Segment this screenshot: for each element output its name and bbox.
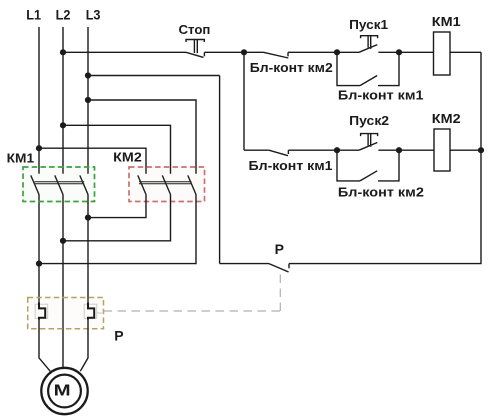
wire coil KM1 to right rail: [450, 51, 481, 53]
svg-text:Стоп: Стоп: [179, 23, 211, 37]
svg-text:Бл-конт км1: Бл-конт км1: [249, 159, 333, 173]
stop button NC blade: [186, 52, 204, 57]
NC contact Бл-конт км2 blade: [264, 52, 289, 58]
wire aux branch 2 right: [378, 150, 399, 181]
wire L3 rail top: [87, 27, 89, 174]
junction dot KM2 phase1 to L3 rail: [85, 215, 91, 221]
svg-text:Бл-конт км2: Бл-конт км2: [250, 61, 333, 75]
motor M inner circle: [48, 375, 81, 408]
wire node C to coil KM1: [399, 51, 434, 53]
thermal contact P tick: [288, 264, 290, 269]
stop button tick: [203, 52, 205, 56]
contactor KM1 linkage bar: [35, 182, 85, 184]
junction dot right rail row2: [478, 147, 484, 153]
svg-text:L3: L3: [86, 7, 101, 23]
wire node D to start button 2: [337, 149, 359, 151]
svg-text:КМ2: КМ2: [113, 151, 142, 165]
thermal relay heater frame phase3: [84, 304, 97, 318]
wire NC km1 to node D: [288, 149, 337, 151]
contactor KM2 linkage bar: [139, 182, 192, 184]
wire stop button to node A: [204, 51, 244, 53]
svg-text:КМ2: КМ2: [432, 112, 461, 126]
wire node E to coil KM2: [399, 149, 434, 151]
junction dot L1 tap: [36, 145, 42, 151]
wire NC km2 to node B: [288, 51, 337, 53]
svg-text:Пуск1: Пуск1: [349, 18, 388, 32]
start button Пуск2 plunger: [361, 134, 378, 147]
wire L2 rail top: [62, 27, 64, 174]
wire control return vertical: [219, 76, 221, 264]
wire KM2 phase2 output: [63, 195, 171, 241]
svg-text:Бл-конт км2: Бл-конт км2: [338, 186, 424, 200]
thermal relay heater P phase1: [39, 303, 45, 320]
wire aux branch 1 right: [378, 52, 399, 85]
svg-text:КМ1: КМ1: [7, 152, 34, 166]
contactor KM1 boundary box: [23, 167, 95, 202]
junction dot L3 tap: [85, 72, 91, 78]
wire row2 to NC km1: [244, 149, 269, 151]
junction dot node A: [241, 49, 247, 55]
thermal relay boundary box: [28, 298, 104, 329]
svg-text:Бл-конт км1: Бл-конт км1: [338, 89, 424, 103]
svg-text:Пуск2: Пуск2: [349, 114, 389, 128]
contactor KM2 contact blade phase2: [162, 175, 170, 194]
junction dot KM2 phase2 to L2 rail: [60, 238, 66, 244]
coil KM2: [434, 129, 450, 171]
junction dot node C: [396, 49, 402, 55]
junction dot KM2 phase3 to L1 rail: [36, 261, 42, 267]
svg-text:L2: L2: [56, 7, 71, 23]
wire L3 tap to KM2 phase3: [88, 100, 196, 174]
motor M outer circle: [41, 368, 87, 414]
NC contact Бл-конт км2 tick: [287, 52, 289, 56]
wire start button 1 to node C: [378, 51, 399, 53]
wire KM2 phase3 output: [39, 195, 196, 264]
NC contact Бл-конт км1 blade row2: [269, 150, 288, 156]
wire L1 rail top: [38, 27, 40, 174]
wire node A to NC km2: [244, 51, 264, 53]
wire L3 rail below heater: [80, 318, 88, 372]
contactor KM2 boundary box: [129, 167, 205, 202]
svg-text:М: М: [54, 383, 71, 400]
thermal relay heater P phase3: [88, 303, 94, 320]
wire L1 rail below heater: [39, 318, 50, 372]
junction dot L2 tap: [60, 49, 66, 55]
stop button plunger: [186, 40, 204, 54]
contactor KM2 contact blade phase3: [188, 175, 196, 194]
wire L2 rail to motor: [62, 195, 64, 369]
svg-text:КМ1: КМ1: [432, 15, 461, 29]
svg-text:L1: L1: [26, 7, 41, 23]
coil KM1: [434, 32, 451, 75]
wire L2 tap to KM2 phase2: [63, 125, 171, 173]
wire coil KM2 to right rail: [450, 149, 481, 151]
NO contact Бл-конт км1 blade: [360, 76, 377, 86]
wire aux branch 1 left: [337, 52, 360, 85]
thermal relay heater frame phase1: [35, 304, 48, 318]
svg-text:Р: Р: [275, 241, 284, 257]
wire start button 2 to node E: [378, 149, 399, 151]
wire node B to start button 1: [337, 51, 359, 53]
junction dot node D: [334, 147, 340, 153]
contactor KM2 contact blade phase1: [138, 175, 146, 194]
contactor KM1 contact blade phase1: [31, 175, 39, 194]
NO contact Бл-конт км2 blade: [360, 171, 377, 181]
contactor KM1 contact blade phase3: [80, 175, 88, 194]
wire right rail: [289, 52, 481, 263]
wire node A down to row 2: [243, 52, 245, 150]
wire control return to thermal contact: [220, 263, 269, 265]
wire L3 rail middle: [87, 195, 89, 307]
start button Пуск1 plunger: [361, 36, 378, 49]
wire aux branch 2 left: [337, 150, 360, 181]
mechanical linkage thermal relay to contact: [97, 312, 104, 314]
wire L1 rail middle: [38, 195, 40, 307]
junction dot node E: [396, 147, 402, 153]
wire KM2 phase1 output: [88, 195, 146, 218]
NC contact Бл-конт км1 tick row2: [287, 150, 289, 154]
thermal contact P blade: [269, 264, 289, 272]
junction dot node B: [334, 49, 340, 55]
wire L1 tap to KM2 phase1: [39, 148, 146, 174]
junction dot L3 second tap: [85, 97, 91, 103]
contactor KM1 contact blade phase2: [55, 175, 63, 194]
svg-text:Р: Р: [114, 328, 123, 344]
junction dot L2 second tap: [60, 122, 66, 128]
wire L2 tap to stop button: [63, 51, 186, 53]
wire L3 tap to control return: [88, 75, 220, 77]
mechanical linkage dashes: [104, 273, 281, 312]
start button Пуск2 blade: [359, 143, 377, 151]
start button Пуск1 blade: [359, 45, 377, 53]
